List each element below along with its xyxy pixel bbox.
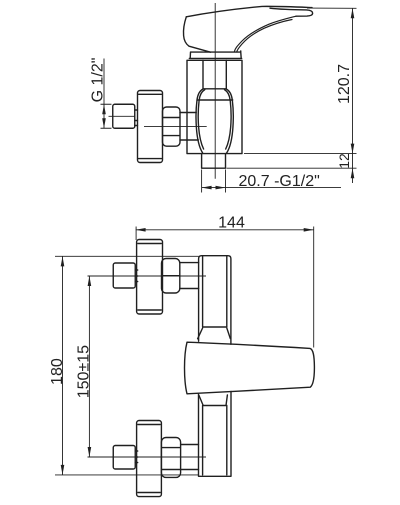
svg-text:144: 144 [218, 214, 245, 231]
svg-text:12: 12 [336, 153, 352, 169]
svg-text:G 1/2": G 1/2" [89, 58, 106, 103]
svg-text:180: 180 [49, 358, 66, 385]
svg-text:120.7: 120.7 [336, 64, 353, 104]
svg-text:150±15: 150±15 [76, 345, 93, 398]
svg-text:20.7 -G1/2": 20.7 -G1/2" [239, 173, 320, 190]
